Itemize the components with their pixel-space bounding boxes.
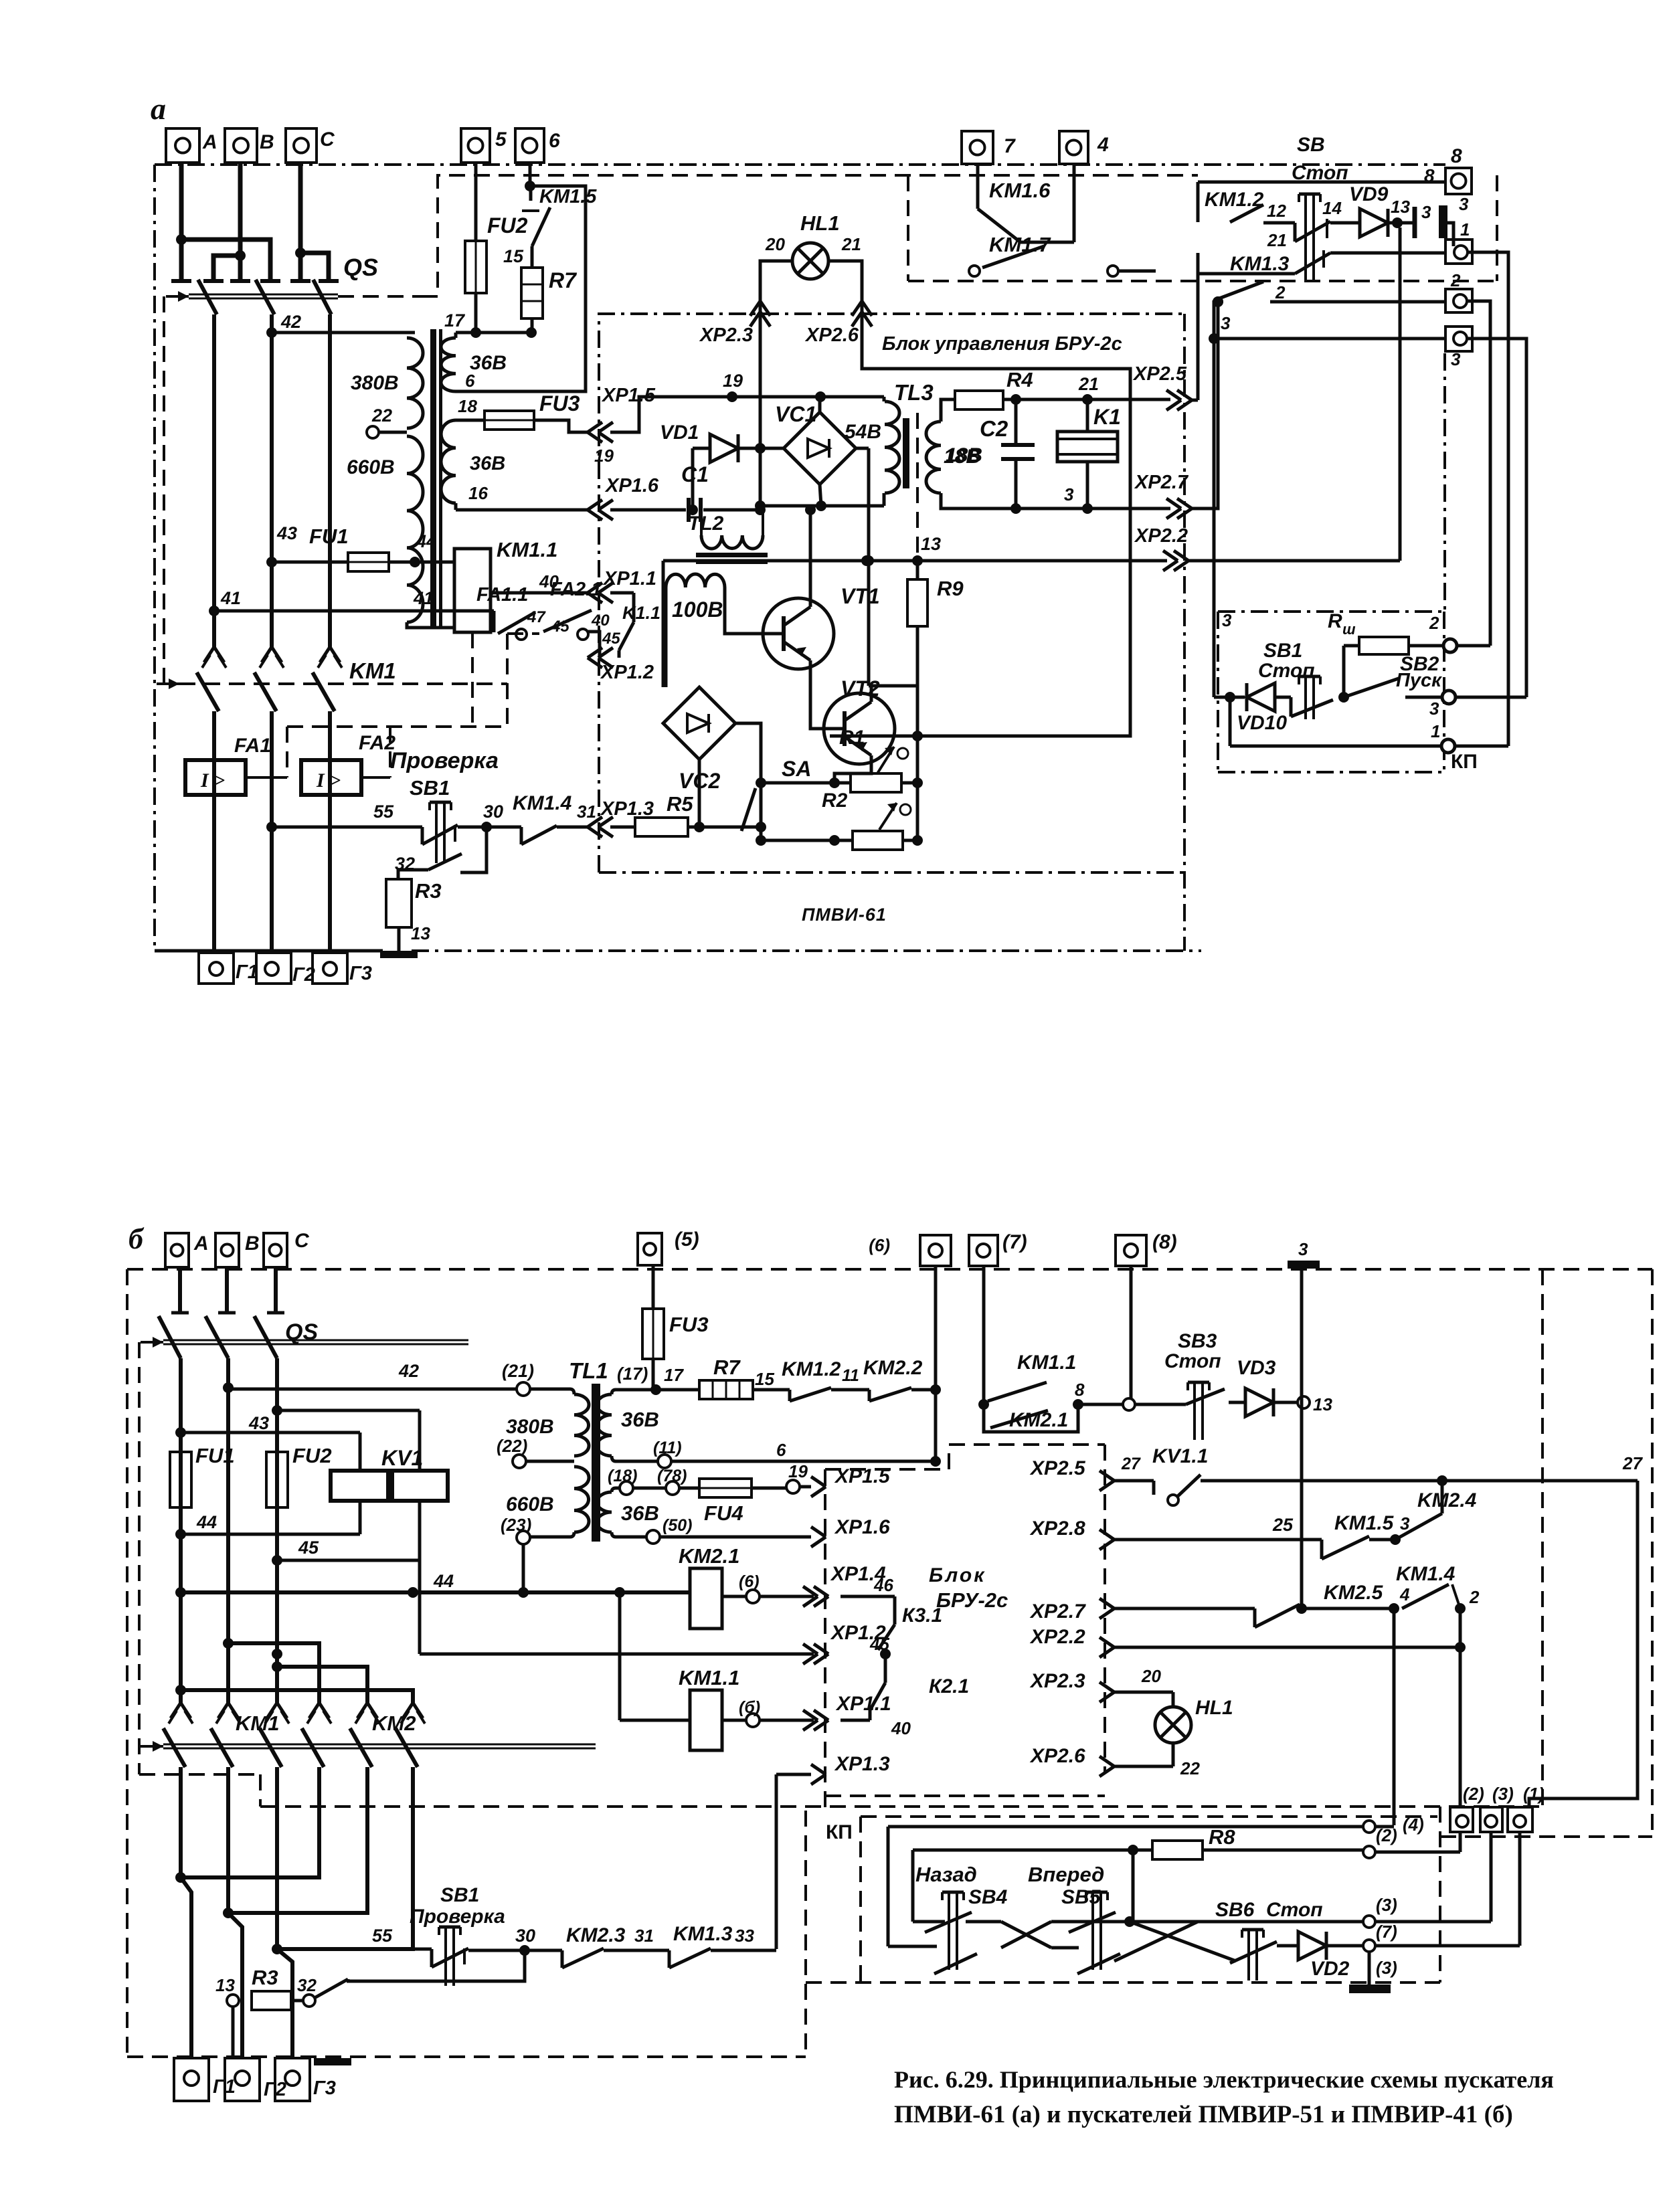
svg-text:Стоп: Стоп bbox=[1266, 1899, 1323, 1921]
diode VD3 bbox=[1229, 1357, 1276, 1416]
transformer TL1b primary 660V bbox=[530, 1467, 589, 1537]
svg-text:SB5: SB5 bbox=[1061, 1886, 1101, 1908]
svg-text:VD2: VD2 bbox=[1310, 1958, 1350, 1980]
svg-text:20: 20 bbox=[1141, 1666, 1161, 1686]
wire node 13 line bbox=[663, 534, 1167, 566]
wire XP1.3 drop bbox=[775, 1774, 778, 1949]
contactor KM2 pole3 b bbox=[272, 1703, 425, 1954]
potentiometer R2 bbox=[761, 790, 917, 850]
contactor KM2 pole1 b bbox=[175, 1703, 331, 1883]
contactor KM2 pole2 b bbox=[223, 1703, 379, 1918]
svg-text:KM1.5: KM1.5 bbox=[1334, 1512, 1395, 1534]
wire R1R2 right rail bbox=[912, 686, 923, 846]
wire phase C drop b bbox=[267, 1267, 284, 1313]
label FU3 bbox=[539, 391, 580, 416]
svg-text:а: а bbox=[151, 92, 166, 126]
connector XP1.2 bbox=[588, 630, 654, 683]
svg-text:8: 8 bbox=[1451, 145, 1462, 167]
tap 3 b bbox=[1363, 1833, 1491, 1928]
svg-text:SB1: SB1 bbox=[1263, 640, 1302, 662]
wire R5 line bbox=[610, 826, 635, 829]
svg-text:3: 3 bbox=[1421, 202, 1431, 222]
svg-text:43: 43 bbox=[248, 1413, 269, 1433]
terminal B bbox=[225, 128, 274, 163]
QS interlock line bbox=[166, 291, 422, 302]
contact KM2.4 bbox=[1390, 1481, 1477, 1545]
svg-text:2: 2 bbox=[1450, 270, 1461, 290]
svg-text:Стоп: Стоп bbox=[1258, 660, 1315, 682]
contact SB lower bbox=[1198, 253, 1330, 274]
svg-text:3: 3 bbox=[1064, 484, 1074, 504]
rectifier VC2 bbox=[663, 687, 735, 759]
svg-text:(5): (5) bbox=[675, 1228, 699, 1251]
wire 3 line bbox=[941, 493, 1170, 514]
svg-text:Назад: Назад bbox=[915, 1863, 977, 1886]
enclosure border a bbox=[155, 165, 1445, 951]
tap 50 b bbox=[646, 1516, 692, 1544]
label KP bbox=[1451, 751, 1478, 773]
svg-text:44: 44 bbox=[416, 531, 436, 551]
resistor R4 bbox=[955, 391, 1003, 409]
wire 3 into KP bbox=[1214, 339, 1232, 697]
svg-text:K1.1: K1.1 bbox=[622, 603, 660, 623]
svg-text:100В: 100В bbox=[672, 597, 723, 622]
wire node13 to VC2 bbox=[662, 561, 665, 687]
wire C1 to node bbox=[703, 504, 766, 515]
contactor KM1 pole 3 bbox=[313, 647, 342, 953]
svg-text:б: б bbox=[128, 1222, 145, 1255]
svg-text:3: 3 bbox=[1298, 1239, 1308, 1259]
wire 32 branch b bbox=[347, 1950, 525, 1981]
svg-text:30: 30 bbox=[515, 1926, 535, 1946]
svg-text:22: 22 bbox=[1180, 1758, 1200, 1778]
contact KM2.1 aux b bbox=[984, 1404, 1078, 1432]
wire 44 line bbox=[389, 531, 454, 567]
contact KM1.1 aux b bbox=[988, 1352, 1078, 1404]
wire 8 node b bbox=[1073, 1380, 1123, 1410]
wire XP1.1 inside bbox=[610, 591, 634, 595]
svg-text:Блок управления БРУ-2с: Блок управления БРУ-2с bbox=[882, 333, 1122, 355]
wire R7 bottom bbox=[526, 318, 537, 338]
wire HL1 left bbox=[760, 261, 793, 506]
resistor R9 bbox=[907, 561, 928, 686]
svg-text:R2: R2 bbox=[822, 790, 848, 812]
svg-text:FU4: FU4 bbox=[704, 1501, 743, 1525]
label C2 bbox=[944, 416, 1008, 468]
wire phase C lower bbox=[328, 314, 332, 647]
figure caption line1 bbox=[894, 2066, 1554, 2093]
svg-text:XP2.3: XP2.3 bbox=[1029, 1670, 1085, 1692]
contact KV1.1 bbox=[1121, 1445, 1208, 1505]
tap 2 b bbox=[1363, 1825, 1460, 1858]
transformer TL1b secondary1 bbox=[597, 1390, 616, 1461]
connector XP2.7 b bbox=[1029, 1598, 1255, 1623]
label Blok upravleniya BRU-2s bbox=[882, 333, 1122, 355]
svg-text:32: 32 bbox=[395, 854, 415, 874]
svg-text:(7): (7) bbox=[1002, 1231, 1027, 1253]
wire 32 branch bbox=[460, 827, 487, 872]
svg-text:13: 13 bbox=[215, 1975, 235, 1995]
SB5 blades bbox=[1051, 1912, 1120, 1974]
svg-text:(7): (7) bbox=[1376, 1922, 1397, 1942]
svg-text:12: 12 bbox=[1267, 201, 1286, 221]
svg-text:47: 47 bbox=[527, 608, 546, 626]
inner dashed left b bbox=[138, 1342, 141, 1774]
wire KM1.1b feed bbox=[620, 1592, 690, 1720]
wire 3 node sb bbox=[1198, 274, 1231, 400]
wire 21 line bbox=[1003, 374, 1170, 405]
svg-text:KM1.1: KM1.1 bbox=[679, 1666, 739, 1689]
wire FU3 to XP1.5 bbox=[534, 420, 588, 432]
jumper C bbox=[295, 248, 339, 281]
svg-text:32: 32 bbox=[297, 1975, 317, 1995]
terminal8 tap b bbox=[1123, 1266, 1135, 1410]
inner dashed left a bbox=[163, 296, 165, 684]
svg-text:18В: 18В bbox=[944, 446, 980, 468]
diode VD1 bbox=[693, 434, 784, 462]
svg-text:I >: I > bbox=[200, 769, 225, 792]
terminal 7 b bbox=[969, 1231, 1027, 1266]
label SB bbox=[1292, 134, 1348, 184]
wire phase B lower b bbox=[223, 1358, 234, 1703]
svg-text:SB4: SB4 bbox=[968, 1886, 1008, 1908]
svg-text:21: 21 bbox=[1078, 374, 1099, 394]
svg-text:KM1.1: KM1.1 bbox=[1017, 1352, 1076, 1374]
svg-text:46: 46 bbox=[873, 1575, 893, 1595]
label FU2 bbox=[487, 213, 528, 238]
terminal G2 b bbox=[225, 2058, 286, 2101]
resistor Rsh bbox=[1328, 610, 1445, 697]
wire 11 line b bbox=[616, 1460, 658, 1463]
svg-text:XP1.2: XP1.2 bbox=[600, 662, 654, 683]
svg-text:R5: R5 bbox=[667, 792, 693, 816]
svg-text:(2): (2) bbox=[1463, 1784, 1484, 1804]
contactor KM1 pole3 b bbox=[260, 1703, 289, 1949]
svg-text:QS: QS bbox=[343, 254, 378, 281]
wire G2 out bbox=[228, 1913, 242, 2058]
svg-text:44: 44 bbox=[433, 1571, 454, 1591]
svg-text:19: 19 bbox=[594, 446, 614, 466]
terminal (2) box bbox=[1450, 1608, 1484, 1832]
contact K3.1 bbox=[878, 1604, 942, 1650]
transformer TL2 label bbox=[688, 513, 724, 535]
svg-text:R7: R7 bbox=[713, 1356, 741, 1379]
wire 55 line b bbox=[277, 1926, 432, 1967]
transformer TL2 primary bbox=[701, 510, 763, 549]
svg-text:FU2: FU2 bbox=[292, 1444, 332, 1467]
wire VT2 emitter bbox=[834, 764, 871, 783]
svg-text:SB1: SB1 bbox=[440, 1884, 479, 1906]
wire 18-19 b bbox=[633, 1487, 666, 1490]
svg-text:KM1: KM1 bbox=[236, 1712, 279, 1735]
wire terminal 4 drop bbox=[1073, 164, 1076, 242]
svg-text:Г3: Г3 bbox=[349, 963, 372, 984]
connector XP1.1 b bbox=[760, 1693, 911, 1738]
wire 45 to XP1.2 bbox=[588, 632, 600, 658]
svg-text:Г3: Г3 bbox=[313, 2078, 336, 2099]
jumper C-col5 bbox=[277, 1667, 367, 1703]
terminal (1) box bbox=[1508, 1784, 1545, 1832]
svg-text:(б): (б) bbox=[739, 1698, 760, 1717]
svg-text:19: 19 bbox=[788, 1461, 808, 1481]
svg-text:XP1.6: XP1.6 bbox=[834, 1516, 890, 1538]
svg-text:15: 15 bbox=[503, 246, 524, 266]
wire TL3 primary top bbox=[883, 397, 886, 401]
switch QS blade A b bbox=[159, 1316, 181, 1358]
svg-text:KM1.3: KM1.3 bbox=[1230, 253, 1290, 275]
svg-text:2: 2 bbox=[1429, 613, 1439, 633]
connector XP1.5 b bbox=[800, 1465, 891, 1497]
wire 17 line b bbox=[616, 1364, 684, 1395]
svg-text:Стоп: Стоп bbox=[1164, 1350, 1221, 1372]
wire phase A lower bbox=[212, 314, 216, 647]
svg-text:XP2.6: XP2.6 bbox=[1029, 1745, 1085, 1767]
wire phase B drop bbox=[230, 163, 250, 281]
label KM1.5 bbox=[539, 186, 597, 207]
wire TL3 primary bottom bbox=[821, 493, 884, 506]
tap 6a b bbox=[739, 1572, 760, 1603]
svg-text:13: 13 bbox=[411, 923, 430, 943]
label KP b bbox=[826, 1821, 853, 1843]
fuse FU1 b bbox=[170, 1444, 235, 1507]
transformer TL1b secondary2 bbox=[597, 1488, 621, 1537]
relay K1 bbox=[1057, 399, 1118, 509]
resistor R8 bbox=[1136, 1825, 1363, 1859]
tap 13c b bbox=[215, 1975, 239, 2007]
connector XP1.6 b bbox=[660, 1516, 890, 1547]
relay KV1 bbox=[331, 1446, 448, 1501]
connector XP1.2 b bbox=[420, 1622, 889, 1664]
connector XP1.5 bbox=[588, 385, 656, 466]
svg-text:27: 27 bbox=[1121, 1455, 1141, 1473]
svg-text:Вперед: Вперед bbox=[1028, 1863, 1104, 1886]
svg-text:КП: КП bbox=[1451, 751, 1478, 773]
button SB1 b bbox=[432, 1927, 468, 1986]
diode VD10 bbox=[1214, 683, 1291, 734]
svg-text:KM1.7: KM1.7 bbox=[989, 233, 1051, 256]
svg-text:VC1: VC1 bbox=[775, 402, 816, 426]
label K1 bbox=[1064, 405, 1121, 504]
svg-text:Пуск: Пуск bbox=[1396, 670, 1442, 691]
svg-text:R8: R8 bbox=[1209, 1825, 1235, 1849]
label TL3 bbox=[894, 380, 934, 405]
label 36V-1 b bbox=[621, 1408, 659, 1431]
KP box border b bbox=[806, 1807, 1440, 1983]
svg-text:K1: K1 bbox=[1093, 405, 1121, 429]
svg-text:TL3: TL3 bbox=[894, 380, 934, 405]
svg-text:14: 14 bbox=[1322, 198, 1342, 218]
KM interlock b bbox=[141, 1741, 596, 1752]
svg-text:54В: 54В bbox=[845, 421, 881, 443]
tap 22 terminal bbox=[367, 405, 407, 438]
cabinet dashed line b bbox=[139, 1774, 1542, 1807]
wire to 13 b bbox=[1273, 1401, 1298, 1404]
svg-text:HL1: HL1 bbox=[1195, 1697, 1233, 1719]
rectifier VC1 bbox=[784, 412, 856, 484]
svg-text:16: 16 bbox=[468, 483, 488, 503]
svg-text:(21): (21) bbox=[502, 1361, 534, 1381]
connector XP1.6 bbox=[588, 475, 659, 520]
right border dashdot bbox=[1443, 353, 1446, 612]
svg-text:380В: 380В bbox=[506, 1416, 554, 1438]
KP bottom row bbox=[1225, 692, 1441, 746]
svg-text:17: 17 bbox=[444, 310, 466, 331]
relay FA2 bbox=[301, 732, 395, 795]
KV1 wires bbox=[360, 1501, 420, 1654]
contact KM1.3 b bbox=[669, 1923, 776, 1968]
wire tap23 down bbox=[522, 1545, 525, 1592]
label SB1a bbox=[390, 748, 499, 800]
svg-text:30: 30 bbox=[483, 802, 503, 822]
svg-text:SB6: SB6 bbox=[1215, 1899, 1255, 1921]
fuse FU1 bbox=[348, 553, 389, 571]
connector pin 3 bbox=[1415, 202, 1431, 238]
svg-text:R: R bbox=[1328, 610, 1342, 632]
label R3a bbox=[411, 879, 442, 943]
enclosure border b bbox=[127, 1269, 1652, 2057]
svg-text:KM1.1: KM1.1 bbox=[497, 538, 557, 561]
svg-text:13: 13 bbox=[1391, 197, 1410, 217]
SB6 blade bbox=[1230, 1942, 1277, 1963]
svg-text:БРУ-2с: БРУ-2с bbox=[936, 1588, 1008, 1612]
button SB4 bbox=[915, 1863, 1008, 1970]
contactor coil KM2.1 b bbox=[679, 1544, 739, 1629]
svg-text:SB: SB bbox=[1297, 134, 1325, 156]
wire circle2 right bbox=[1467, 301, 1490, 646]
diode VD9 bbox=[1330, 183, 1389, 237]
TL2 core bbox=[696, 553, 768, 564]
wire R9 bottom link bbox=[856, 448, 917, 686]
wire ground stem b bbox=[1369, 1952, 1397, 1985]
relay FA1 bbox=[185, 735, 271, 795]
connector XP2.6 bbox=[804, 301, 872, 346]
terminal 7 bbox=[962, 131, 1016, 164]
svg-text:31: 31 bbox=[634, 1926, 654, 1946]
terminal B b bbox=[215, 1232, 260, 1267]
svg-text:XP1.1: XP1.1 bbox=[835, 1693, 891, 1715]
wire VT1 emitter to VT2 base bbox=[810, 669, 824, 729]
contact KM1.3 bbox=[1214, 253, 1290, 302]
svg-text:Рис. 6.29. Принципиальные элек: Рис. 6.29. Принципиальные электрические … bbox=[894, 2066, 1554, 2093]
label VD1 bbox=[660, 422, 699, 444]
svg-text:(17): (17) bbox=[617, 1364, 648, 1384]
svg-text:22: 22 bbox=[371, 405, 392, 426]
switch QS blade C b bbox=[254, 1316, 277, 1358]
svg-text:FU3: FU3 bbox=[669, 1313, 709, 1336]
wire 44 upper b bbox=[181, 1512, 360, 1534]
resistor R3 b bbox=[252, 1966, 303, 2010]
schematic b marker label bbox=[128, 1222, 145, 1255]
resistor R5 bbox=[635, 818, 688, 836]
button SB6 bbox=[1215, 1899, 1323, 1980]
svg-text:XP2.7: XP2.7 bbox=[1029, 1600, 1086, 1623]
BRU block border b bbox=[825, 1445, 1105, 1815]
tap 11 b bbox=[653, 1439, 941, 1468]
wire 3 line sb bbox=[1214, 337, 1445, 341]
label HL1 bbox=[765, 211, 861, 254]
switch QS blade B b bbox=[205, 1316, 228, 1358]
transistor VT2 bbox=[824, 693, 895, 764]
terminal 6 bbox=[515, 128, 560, 163]
wire 41 line bbox=[209, 588, 494, 632]
wire TL3 sec top bbox=[941, 399, 955, 422]
wire VC1 top bbox=[818, 397, 822, 412]
wire R8 line bbox=[913, 1845, 1138, 1922]
svg-text:TL2: TL2 bbox=[688, 513, 724, 535]
svg-text:VT2: VT2 bbox=[841, 676, 880, 701]
svg-text:3: 3 bbox=[1400, 1513, 1410, 1534]
ground 3 top b bbox=[1288, 1239, 1320, 1269]
BRU-2s control-block border bbox=[599, 314, 1184, 951]
wire FU4 to 19 bbox=[752, 1487, 788, 1490]
contact KM1.5 bbox=[522, 187, 550, 268]
contact KM1.4 bbox=[513, 792, 596, 844]
button SB5 bbox=[1028, 1863, 1108, 1970]
transformer TL1a primary 380V bbox=[407, 333, 423, 428]
connector XP2.8 b bbox=[1029, 1515, 1322, 1550]
switch QS blade B bbox=[256, 280, 274, 314]
svg-text:42: 42 bbox=[280, 312, 301, 332]
KP circle 2 bbox=[1429, 613, 1490, 652]
svg-text:4: 4 bbox=[1399, 1584, 1410, 1604]
wire VC2 right to SA bbox=[735, 723, 761, 783]
tap 7 b bbox=[1326, 1833, 1520, 1952]
wire VD1 left bbox=[687, 448, 698, 515]
svg-text:(3): (3) bbox=[1492, 1784, 1514, 1804]
wire 3 vertical b bbox=[1296, 1269, 1307, 1614]
svg-text:FA1.1: FA1.1 bbox=[476, 584, 528, 606]
wire VT1 collector bbox=[805, 504, 816, 598]
svg-text:R1: R1 bbox=[839, 727, 865, 749]
wire VC2 top bbox=[698, 686, 701, 688]
label 660V b bbox=[501, 1493, 554, 1535]
terminal C bbox=[286, 128, 335, 163]
svg-text:5: 5 bbox=[495, 128, 507, 151]
button SB1 stop KP bbox=[1258, 640, 1333, 719]
svg-text:XP2.3: XP2.3 bbox=[699, 325, 753, 346]
wire 44 bus b bbox=[181, 1571, 690, 1598]
svg-text:К2.1: К2.1 bbox=[929, 1675, 969, 1697]
fuse FU3 bbox=[484, 411, 534, 430]
wire TL2 sec right bbox=[725, 587, 763, 634]
svg-text:B: B bbox=[260, 131, 274, 153]
label R9 bbox=[937, 577, 964, 600]
label R5 bbox=[667, 792, 693, 816]
svg-text:C: C bbox=[320, 128, 335, 151]
svg-text:KM1.4: KM1.4 bbox=[1396, 1563, 1456, 1585]
connector pin 3b bbox=[1439, 194, 1469, 238]
wire 8 line bbox=[1198, 182, 1445, 222]
svg-text:(6): (6) bbox=[739, 1572, 760, 1591]
wire 30 node bbox=[458, 802, 521, 832]
transformer TL1a secondary 36V-2 bbox=[441, 420, 456, 503]
contact KM1.4 b bbox=[1389, 1563, 1480, 1614]
connector XP2.7 bbox=[1134, 472, 1192, 519]
svg-text:6: 6 bbox=[465, 371, 475, 391]
svg-text:380В: 380В bbox=[351, 372, 399, 394]
svg-text:3: 3 bbox=[1459, 194, 1469, 214]
svg-text:36В: 36В bbox=[621, 1408, 659, 1431]
tap 18 b bbox=[608, 1467, 637, 1495]
svg-text:R3: R3 bbox=[252, 1966, 278, 1989]
label VT1 bbox=[841, 584, 880, 608]
svg-text:XP1.1: XP1.1 bbox=[602, 568, 656, 589]
svg-text:XP2.6: XP2.6 bbox=[804, 325, 859, 346]
connector XP2.3 b bbox=[1029, 1666, 1173, 1702]
svg-text:(22): (22) bbox=[497, 1436, 527, 1456]
label VC1 bbox=[775, 402, 881, 443]
svg-text:43: 43 bbox=[276, 523, 297, 543]
